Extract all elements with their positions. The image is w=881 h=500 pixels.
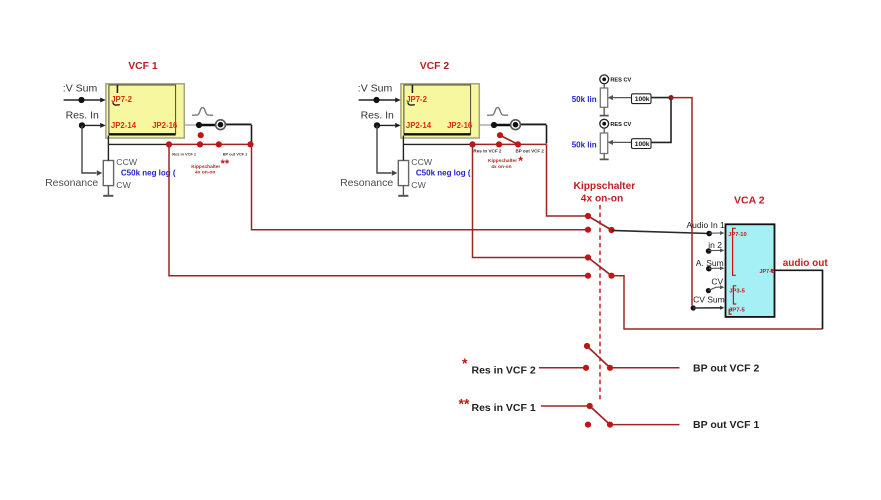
svg-text:50k lin: 50k lin xyxy=(572,95,597,104)
wire S4 to BP out VCF 1 xyxy=(610,424,680,426)
resistor R2 100k xyxy=(632,139,652,149)
arrowhead wiper VCF1 xyxy=(97,170,103,175)
arrowhead wiper1 xyxy=(608,95,613,100)
svg-text:100k: 100k xyxy=(635,96,650,103)
wire Res In into VCF2 xyxy=(377,124,397,126)
wire CV diagonal stub xyxy=(708,287,720,290)
junction dot mid2 VCF1 xyxy=(216,141,222,147)
junction dot res cv xyxy=(668,95,673,100)
switch throw dot VCF2 xyxy=(497,132,503,138)
svg-text:Res. In: Res. In xyxy=(361,110,394,122)
junction dot CV Sum VCF2 xyxy=(373,97,379,103)
svg-text:Resonance: Resonance xyxy=(340,177,393,189)
switch S2 common dot xyxy=(608,273,614,279)
wire CV Sum into VCF1 xyxy=(64,99,102,101)
wire A. Sum stub xyxy=(709,267,721,269)
wire connector1 to pot1 xyxy=(603,84,605,88)
wire R1 to junction xyxy=(651,97,671,99)
wire BP out VCF1 (dot to jack) xyxy=(199,124,216,127)
wire BP out VCF1 (jack to corner) xyxy=(225,123,251,125)
arrowhead CV Sum VCF2 xyxy=(395,98,401,103)
svg-text:CW: CW xyxy=(411,180,426,190)
connector RES CV 2 xyxy=(600,119,609,128)
dot in 2 xyxy=(706,248,712,254)
wire pot top to box VCF2 xyxy=(402,136,404,161)
wire CV Sum stub xyxy=(693,307,720,309)
svg-text:JP2-16: JP2-16 xyxy=(152,121,178,130)
svg-text:**: ** xyxy=(221,158,230,170)
dot A. Sum xyxy=(706,266,712,272)
svg-text:BP out VCF 1: BP out VCF 1 xyxy=(223,152,248,157)
wire in 2 stub xyxy=(709,249,721,251)
switch S3 left dot xyxy=(583,365,589,371)
svg-text:CW: CW xyxy=(116,180,131,190)
switch S1 lower throw dot xyxy=(585,227,591,233)
wire VCF2 bp to switch1 upper xyxy=(547,144,586,216)
jack J1 BP out VCF1 xyxy=(216,120,226,130)
arrowhead CV Sum VCF1 xyxy=(100,98,106,103)
wire VCF1 bp to switch1 lower xyxy=(252,144,586,229)
wire Res In down to pot wiper VCF2 xyxy=(377,125,392,173)
jack J2 BP out VCF2 xyxy=(511,120,521,130)
svg-text:BP out VCF 2: BP out VCF 2 xyxy=(516,148,545,153)
module VCA2 body xyxy=(726,224,775,317)
ground pot P1 xyxy=(600,107,609,115)
svg-text:CV Sum: CV Sum xyxy=(693,295,725,305)
svg-text:JP2-14: JP2-14 xyxy=(406,121,432,130)
svg-text:4x on-on: 4x on-on xyxy=(581,194,623,205)
bandpass response icon VCF1 xyxy=(192,108,213,116)
jumper bracket JP3-5 xyxy=(733,286,736,304)
module U-VCF1 body xyxy=(106,84,184,138)
wire res net black VCF2 xyxy=(403,143,471,145)
junction dot Res In VCF1 xyxy=(79,122,85,128)
junction dot BP out VCF2 xyxy=(491,122,497,128)
svg-text:JP7-5: JP7-5 xyxy=(729,308,745,314)
wire S2 common to audio-out net xyxy=(612,276,823,329)
wire res-bp red link VCF1 xyxy=(168,143,252,145)
junction dot BP out VCF1 xyxy=(196,122,202,128)
arrowhead Res In VCF2 xyxy=(395,123,401,128)
junction dot left VCF2 xyxy=(469,141,475,147)
svg-text:JP2-14: JP2-14 xyxy=(111,121,137,130)
switch S2 blade xyxy=(588,258,612,276)
wire audio out xyxy=(775,270,823,329)
jumper bracket JP7-10 xyxy=(733,228,736,275)
svg-text:CCW: CCW xyxy=(116,157,138,167)
switch S4 left dot xyxy=(587,403,593,409)
svg-text:**: ** xyxy=(459,396,470,412)
module U-VCF2 body xyxy=(401,84,479,138)
jumper bracket JP7-5 xyxy=(729,309,732,314)
junction dot mid VCF2 xyxy=(496,141,502,147)
arrowhead Audio In 1 xyxy=(720,231,724,235)
potentiometer P1 50k lin xyxy=(600,88,607,107)
svg-text:Kippschalter: Kippschalter xyxy=(574,181,636,192)
wire VCF2 res to switch2 upper xyxy=(473,144,586,257)
ground pot P2 xyxy=(600,154,609,160)
junction dot Audio In 1 xyxy=(706,231,712,237)
switch S1 common dot xyxy=(608,227,614,233)
switch S3 blade xyxy=(587,346,610,368)
svg-text:Res in VCF 1: Res in VCF 1 xyxy=(172,152,197,157)
junction dot Res In VCF2 xyxy=(374,122,380,128)
wire BP out VCF2 (box to dot) xyxy=(479,124,494,126)
resistor R1 100k xyxy=(632,94,652,104)
wire VCF1 res to switch2 lower xyxy=(169,144,585,275)
wire Res In into VCF1 xyxy=(82,124,102,126)
svg-text:RES CV: RES CV xyxy=(610,122,631,128)
switch blade VCF2 xyxy=(500,135,518,144)
arrowhead CV xyxy=(720,285,724,289)
junction dot CV Sum VCF1 xyxy=(78,97,84,103)
svg-text:4x on-on: 4x on-on xyxy=(195,170,215,176)
switch S3 common dot xyxy=(607,365,613,371)
svg-text:audio out: audio out xyxy=(783,258,829,269)
svg-text:BP out VCF 1: BP out VCF 1 xyxy=(693,419,759,431)
svg-text:VCF 1: VCF 1 xyxy=(128,61,158,72)
svg-text:50k lin: 50k lin xyxy=(572,141,597,150)
svg-text:Res in VCF 1: Res in VCF 1 xyxy=(472,402,536,414)
potentiometer P2 50k lin xyxy=(600,133,607,154)
wire BP out VCF1 (box to dot) xyxy=(184,124,199,126)
dot CV Sum VCA xyxy=(691,305,696,310)
wire Res in VCF 1 to S4 xyxy=(541,405,590,407)
svg-text:RES CV: RES CV xyxy=(610,78,631,84)
wire CV Sum into VCF2 xyxy=(359,99,397,101)
bandpass response icon VCF2 xyxy=(487,108,508,116)
wire junction to VCA CV Sum xyxy=(671,98,692,306)
svg-text:4x on-on: 4x on-on xyxy=(491,164,511,170)
junction dot bp VCF2 xyxy=(515,141,521,147)
svg-text:100k: 100k xyxy=(635,141,650,148)
arrowhead A. Sum xyxy=(720,266,724,270)
switch throw dot VCF1 xyxy=(198,132,204,138)
switch S2 upper throw dot xyxy=(585,254,591,260)
svg-text:Res in VCF 2: Res in VCF 2 xyxy=(472,364,536,376)
svg-text:JP2-16: JP2-16 xyxy=(447,121,473,130)
svg-text:JP7-10: JP7-10 xyxy=(728,232,746,238)
arrowhead in 2 xyxy=(720,248,724,252)
switch S4 common dot xyxy=(607,422,613,428)
switch S3 top throw dot xyxy=(584,343,590,349)
wire res net black VCF1 xyxy=(108,143,167,145)
svg-text:Resonance: Resonance xyxy=(45,177,98,189)
wire wiper1 to R1 xyxy=(609,97,632,99)
svg-text::V Sum: :V Sum xyxy=(63,83,98,95)
wire wiper2 to R2 xyxy=(609,141,632,143)
wire BP corner down VCF2 xyxy=(546,125,548,144)
junction dot left VCF1 xyxy=(166,141,172,147)
junction dot right VCF1 xyxy=(247,141,253,147)
svg-text:Kippschalter: Kippschalter xyxy=(488,158,517,164)
connector RES CV 1 xyxy=(600,75,609,84)
junction dot mid1 VCF1 xyxy=(197,141,203,147)
svg-text:*: * xyxy=(518,154,523,168)
svg-text:JP7-2: JP7-2 xyxy=(111,95,132,104)
svg-text:JP3-5: JP3-5 xyxy=(729,289,745,295)
potentiometer resonance VCF1 xyxy=(103,161,113,186)
arrowhead wiper VCF2 xyxy=(392,170,398,175)
potentiometer resonance VCF2 xyxy=(398,161,408,186)
arrowhead JP7-1 xyxy=(771,269,775,273)
switch S2 lower throw dot xyxy=(585,273,591,279)
ground pot VCF2 xyxy=(398,186,408,196)
wire S1 common to VCA Audio In 1 xyxy=(612,230,710,233)
arrowhead Res In VCF1 xyxy=(100,123,106,128)
switch S4 blade xyxy=(590,406,610,425)
switch S1 upper throw dot xyxy=(585,213,591,219)
wire S3 to BP out VCF 2 xyxy=(610,367,680,369)
wire junction down to R2 xyxy=(651,98,671,143)
svg-text::V Sum: :V Sum xyxy=(358,83,393,95)
svg-text:BP out VCF 2: BP out VCF 2 xyxy=(693,362,759,374)
svg-text:C50k neg log (: C50k neg log ( xyxy=(416,169,471,178)
dashed gang line xyxy=(599,205,601,400)
wire Res in VCF 2 to S3 xyxy=(539,367,586,369)
switch S1 blade xyxy=(588,216,612,230)
svg-text:Kippschalter: Kippschalter xyxy=(191,164,220,170)
arrowhead wiper2 xyxy=(608,140,613,145)
svg-text:*: * xyxy=(462,355,468,371)
wire BP corner down VCF1 xyxy=(251,125,253,144)
wire BP out VCF2 (jack to corner) xyxy=(520,123,546,125)
svg-text:C50k neg log (: C50k neg log ( xyxy=(121,169,176,178)
svg-text:CCW: CCW xyxy=(411,157,433,167)
svg-text:Audio In 1: Audio In 1 xyxy=(687,220,726,230)
svg-text:in 2: in 2 xyxy=(708,240,722,250)
switch S4 lower throw dot xyxy=(585,422,591,428)
wire Audio In 1 stub xyxy=(709,232,720,234)
wire Res In down to pot wiper VCF1 xyxy=(82,125,97,173)
wire res-bp red link VCF2 xyxy=(471,143,547,145)
svg-text:Res. In: Res. In xyxy=(66,110,99,122)
wire connector2 to pot2 xyxy=(603,128,605,133)
dot CV xyxy=(706,288,711,293)
svg-text:VCF 2: VCF 2 xyxy=(420,61,450,72)
svg-text:Res in VCF 2: Res in VCF 2 xyxy=(473,149,502,154)
ground pot VCF1 xyxy=(103,186,113,196)
svg-text:CV: CV xyxy=(711,277,723,287)
svg-text:JP7-2: JP7-2 xyxy=(406,95,427,104)
wire pot top to box VCF1 xyxy=(107,136,109,161)
svg-text:VCA 2: VCA 2 xyxy=(734,195,765,207)
arrowhead CV Sum VCA xyxy=(720,306,724,310)
wire BP out VCF2 (dot to jack) xyxy=(494,124,511,127)
